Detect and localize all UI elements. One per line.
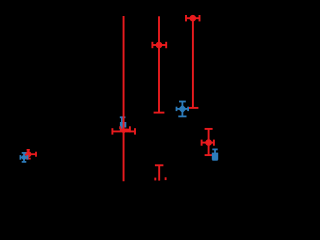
red point R5 (circle, small left cluster) (24, 150, 36, 159)
red point R3 (circle at x193 y18) (186, 15, 200, 108)
red point R6 (clipped at bottom, x159.2) (155, 165, 166, 180)
blue point B2 (diamond at x182.4 y108.9) (177, 102, 189, 117)
red point R4 (circle at x208.6 y142.6, cross error bars) (202, 129, 214, 155)
blue point B1 (diamond, small left cluster) (20, 153, 27, 162)
red point R1 (triangle-down, tall vertical error line) (112, 16, 135, 181)
blue point B3 (square at x215 y156) (212, 149, 218, 159)
blue point B4 (behind tall red line, x~122.8) (120, 117, 127, 130)
red point R2 (circle at x159 y45) (152, 16, 166, 112)
